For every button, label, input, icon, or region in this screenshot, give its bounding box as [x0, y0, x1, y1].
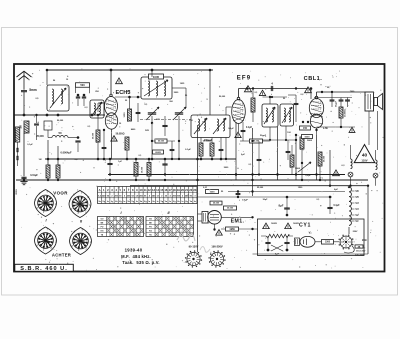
node x3	[103, 129, 105, 131]
node e1	[321, 91, 323, 93]
psu box	[258, 219, 365, 256]
IF transformer can A	[191, 115, 230, 138]
svg-text:A: A	[99, 188, 101, 192]
wire em1 out	[221, 216, 252, 218]
node x14	[295, 134, 297, 136]
wire ECH3 plate	[110, 70, 112, 94]
lamp socket 90-130	[187, 252, 200, 265]
wire c3 down	[36, 133, 38, 140]
svg-text:S.B.R. 460 U.: S.B.R. 460 U.	[20, 266, 68, 272]
svg-text:50μμF: 50μμF	[260, 135, 267, 137]
node h4	[329, 196, 331, 198]
junction bus	[276, 173, 278, 175]
capacitor C24	[170, 148, 175, 150]
svg-text:300Ω: 300Ω	[16, 189, 18, 195]
node x9	[220, 158, 223, 161]
capacitor C5 left	[16, 156, 18, 160]
svg-text:40: 40	[362, 153, 368, 159]
pilot coil L5	[375, 150, 377, 160]
test triangle T6	[111, 136, 117, 141]
wire input bus	[14, 114, 105, 116]
node x10	[225, 158, 227, 160]
svg-text:V₄: V₄	[309, 231, 312, 235]
junction bus2	[329, 185, 331, 187]
svg-text:50,000: 50,000	[219, 96, 226, 98]
fuse 4A	[355, 245, 363, 248]
resistor R12 hatched	[147, 163, 151, 177]
junction bus4	[301, 179, 303, 181]
trimmer arrow osc	[144, 80, 168, 96]
capacitor C12	[339, 99, 344, 101]
wire osc right	[172, 87, 186, 89]
capacitor C17	[241, 129, 246, 131]
node f6	[196, 158, 199, 161]
wire caps row	[314, 97, 352, 99]
capacitor C26	[294, 102, 299, 104]
junction bus	[135, 179, 137, 181]
node x5	[151, 158, 154, 161]
antenna coil L2 box	[90, 100, 104, 118]
resistor R13	[125, 137, 129, 150]
tube socket IV	[70, 228, 92, 255]
junction x22	[47, 179, 49, 181]
node g4	[251, 140, 253, 142]
svg-text:V5: V5	[355, 195, 359, 199]
grid lead ECH3	[98, 102, 106, 104]
node d2	[295, 87, 297, 89]
svg-text:EM1.: EM1.	[231, 218, 245, 224]
junction bus5	[319, 179, 321, 181]
wire can C down	[285, 126, 287, 140]
wire psu bottom	[253, 253, 343, 255]
resistor R18 1500	[206, 190, 219, 194]
node b3	[137, 96, 140, 99]
capacitor C21	[265, 241, 270, 243]
volume pot arrow	[298, 162, 311, 172]
svg-text:1035: 1035	[153, 75, 160, 79]
scan speckle	[18, 68, 383, 270]
model box SBR 460 U	[15, 264, 74, 271]
svg-text:110-130V: 110-130V	[356, 251, 366, 253]
wire cv down	[151, 116, 153, 159]
tube EF9	[232, 100, 246, 124]
node x15	[237, 196, 239, 198]
trimmer arrow L1	[50, 88, 66, 108]
node x11	[315, 129, 317, 131]
svg-text:M.F. 484 kHz.: M.F. 484 kHz.	[121, 254, 151, 259]
node x6	[178, 158, 180, 160]
node a4	[46, 114, 49, 117]
top cap ECH3	[110, 94, 112, 96]
svg-text:0,1μF: 0,1μF	[27, 144, 33, 146]
junction bus	[148, 179, 150, 181]
top cap CBL1	[315, 96, 318, 99]
capacitor C13	[345, 99, 350, 101]
vertical wire x277	[277, 127, 279, 180]
padder coil L3 50	[52, 136, 68, 138]
junction d6	[285, 139, 287, 141]
output transformer	[365, 92, 374, 111]
junction y70 osc	[209, 69, 212, 72]
resistor R25 hatched	[199, 143, 203, 156]
svg-text:13: 13	[152, 188, 155, 192]
tube socket III	[35, 227, 57, 254]
svg-text:50,000: 50,000	[158, 141, 165, 143]
mains triangle 40 110V	[354, 145, 375, 163]
capacitor C16	[286, 150, 291, 152]
resistor R8 osc	[155, 139, 167, 143]
svg-text:17: 17	[169, 188, 172, 192]
svg-text:0.1μF: 0.1μF	[333, 205, 340, 207]
tap V5	[351, 196, 354, 198]
svg-text:50: 50	[58, 131, 62, 135]
svg-text:30μF: 30μF	[263, 199, 269, 201]
capacitor C22	[284, 241, 289, 243]
resistor R10 20000	[339, 107, 343, 118]
svg-text:50,000Ω: 50,000Ω	[116, 134, 125, 136]
resistor R4 left edge	[15, 127, 20, 142]
node c3	[178, 140, 180, 142]
wire speaker down	[368, 111, 370, 145]
lamp socket 190-250	[210, 252, 223, 265]
vertical wire x296	[295, 135, 297, 180]
junction x29	[251, 228, 253, 230]
junction x26	[367, 185, 369, 187]
wire can B top	[269, 97, 271, 104]
pilot coil L4	[350, 145, 352, 159]
junction bus	[235, 173, 237, 175]
value labels texture	[27, 79, 358, 233]
vertical wire x236	[235, 122, 237, 180]
node x4	[171, 158, 173, 160]
node em1	[251, 216, 253, 218]
pot wiper X	[271, 245, 283, 251]
svg-text:220-250V: 220-250V	[355, 255, 365, 257]
capacitor C11	[330, 99, 335, 101]
wire em1 down	[214, 224, 216, 229]
svg-text:30,000: 30,000	[93, 132, 95, 139]
svg-text:VOOR: VOOR	[53, 191, 68, 196]
node b1	[110, 69, 113, 72]
wire bus y186	[130, 185, 368, 187]
svg-text:V4: V4	[355, 201, 359, 205]
node x2	[103, 158, 106, 161]
node a2	[83, 94, 86, 97]
wire bus y174	[108, 174, 345, 176]
svg-text:EF9: EF9	[237, 76, 252, 82]
svg-text:V3: V3	[355, 207, 359, 211]
node d3	[252, 87, 254, 89]
capacitor C25	[219, 148, 224, 150]
svg-text:200Ω: 200Ω	[155, 152, 161, 154]
capacitor C18	[236, 192, 241, 194]
page edge frame	[2, 28, 398, 296]
resistor R6 hatched	[56, 165, 60, 178]
resistor R11 hatched	[134, 163, 138, 177]
junction x27	[348, 186, 350, 188]
svg-text:1000: 1000	[124, 112, 126, 118]
wire can B down	[269, 127, 271, 140]
speaker LS	[374, 98, 378, 106]
junction y115 extra	[35, 114, 37, 116]
wire cy1 out	[315, 241, 321, 243]
node h1	[237, 190, 239, 192]
vertical wire x330	[329, 150, 331, 186]
svg-text:0.1μF: 0.1μF	[185, 149, 191, 151]
test triangle T5	[349, 127, 355, 132]
variable capacitor CV1	[148, 112, 156, 114]
junction x18	[235, 173, 237, 175]
node a9	[57, 158, 60, 161]
capacitor C15	[162, 163, 167, 165]
svg-text:20: 20	[181, 188, 184, 192]
svg-text:90Ω: 90Ω	[362, 239, 367, 242]
capacitor C1	[76, 96, 80, 98]
wire cv1 node	[151, 140, 153, 142]
resistor R22 1M	[226, 227, 239, 231]
resistor R3 box	[44, 121, 52, 130]
junction x21	[23, 179, 26, 182]
resistor R28 5000	[302, 135, 313, 139]
svg-text:12: 12	[148, 188, 151, 192]
svg-text:150: 150	[303, 127, 308, 130]
test triangle T2	[244, 86, 251, 92]
wire selector loop	[344, 246, 354, 253]
tube EM1	[202, 212, 208, 224]
test triangle T7	[333, 170, 340, 176]
node x7	[200, 158, 203, 161]
tap V3	[351, 208, 354, 210]
pilot lamp P2	[373, 173, 378, 178]
capacitor C8	[136, 111, 141, 113]
svg-text:V1: V1	[355, 219, 359, 223]
pencil mark 2	[200, 247, 210, 253]
svg-text:25,000: 25,000	[257, 187, 264, 189]
variable capacitor CV2	[175, 112, 183, 114]
svg-text:5000: 5000	[295, 168, 301, 170]
svg-text:1MΩ: 1MΩ	[229, 228, 234, 231]
svg-text:1939-40: 1939-40	[125, 248, 143, 253]
capacitor C20	[327, 206, 332, 208]
svg-text:500: 500	[80, 83, 85, 87]
ground antenna	[23, 177, 25, 182]
capacitor C23	[102, 146, 107, 148]
test triangle T9	[285, 223, 292, 229]
IF transformer can C	[280, 104, 294, 126]
node h3	[286, 214, 289, 217]
svg-text:90-130V: 90-130V	[189, 245, 199, 249]
wire em3 row	[253, 228, 258, 230]
voltage selector S1	[340, 236, 352, 248]
junction x24	[251, 179, 253, 181]
resistor R29 25000	[210, 201, 222, 205]
node d4	[269, 96, 271, 98]
resistor R20 hum pot	[266, 234, 289, 238]
wire ech3 cathode down	[111, 133, 113, 159]
wire x13	[288, 94, 296, 96]
resistor R19 30000	[224, 206, 237, 210]
svg-text:19: 19	[177, 188, 180, 192]
node h7	[286, 249, 289, 252]
IF transformer can B	[262, 104, 278, 127]
junction x28	[329, 196, 331, 198]
junction x19	[164, 173, 166, 175]
node f1	[135, 158, 138, 161]
wire osc to ifcan	[209, 70, 211, 115]
node a1	[77, 94, 80, 97]
svg-text:GO: GO	[149, 219, 152, 221]
node c1	[151, 69, 154, 72]
wire bus y180	[16, 179, 368, 181]
vertical wire x252	[252, 128, 254, 196]
top cap EF9	[237, 97, 240, 100]
junction x25	[196, 179, 198, 181]
wire antenna down	[23, 133, 25, 176]
svg-text:8μF: 8μF	[279, 204, 284, 208]
junction bus	[164, 179, 166, 181]
wire grid cbl1	[310, 89, 312, 100]
junction x17	[276, 173, 278, 175]
antenna coil L1 box	[47, 85, 69, 111]
svg-text:14: 14	[156, 188, 159, 192]
resistor R2 1M	[24, 121, 29, 133]
svg-text:0.5μF: 0.5μF	[242, 200, 248, 202]
svg-text:CBL1.: CBL1.	[304, 76, 323, 82]
node b2	[128, 96, 131, 99]
svg-text:0.01μF: 0.01μF	[30, 174, 38, 177]
capacitor C10 coupling	[270, 86, 272, 91]
tube CBL1	[309, 99, 323, 118]
svg-text:500Ω: 500Ω	[293, 223, 299, 225]
svg-text:0,5μF: 0,5μF	[305, 175, 311, 177]
wire can bottom row	[262, 139, 296, 141]
node a3	[23, 114, 26, 117]
wire winding to selector	[348, 227, 350, 234]
resistor R23 30000	[96, 130, 100, 142]
svg-text:10: 10	[140, 188, 143, 192]
antenna A1	[23, 71, 25, 90]
valve data table	[98, 187, 198, 204]
svg-text:1M: 1M	[39, 159, 42, 161]
node x1	[97, 158, 100, 161]
svg-text:ACHTER: ACHTER	[52, 253, 71, 258]
wire mid bus y159	[45, 158, 236, 160]
svg-text:22: 22	[189, 188, 192, 192]
node f2	[148, 158, 151, 161]
node g1	[302, 121, 304, 123]
schematic border frame	[14, 64, 385, 272]
transformer winding W1	[349, 187, 351, 225]
capacitor C27	[257, 158, 262, 160]
svg-text:10,000: 10,000	[142, 166, 144, 173]
junction bus	[295, 173, 297, 175]
svg-text:1500: 1500	[210, 191, 216, 193]
svg-text:5000: 5000	[305, 136, 311, 138]
svg-text:20,000Ω: 20,000Ω	[345, 109, 347, 117]
test triangle T10	[216, 230, 223, 236]
pencil mark fil	[177, 234, 195, 241]
gang dashed link	[140, 119, 196, 121]
svg-text:V6: V6	[355, 189, 359, 193]
vertical wire x316	[316, 135, 318, 180]
wire long vertical volume	[197, 125, 199, 252]
svg-text:23: 23	[193, 188, 196, 192]
svg-text:0,1μF: 0,1μF	[228, 128, 234, 130]
resistor R5 hatched	[46, 165, 50, 178]
wire CBL1 plate	[316, 92, 318, 96]
switch table II	[146, 217, 194, 237]
tap V6	[351, 190, 354, 192]
svg-text:V2: V2	[355, 213, 359, 217]
node h5	[251, 190, 253, 192]
resistor R15 5000	[300, 137, 304, 149]
oscillator coil box 1035	[141, 77, 172, 99]
wire e row127	[317, 126, 356, 128]
svg-text:110V: 110V	[361, 158, 367, 162]
junction y70 b	[46, 69, 49, 72]
node h2	[286, 196, 289, 199]
node e2	[331, 91, 333, 93]
test triangle T4	[305, 87, 312, 93]
svg-text:25,000: 25,000	[213, 203, 220, 205]
wire plate bus y88	[239, 88, 312, 90]
trimmer arrow L2	[92, 102, 103, 116]
tube ECH3	[105, 97, 118, 116]
wire right edge drop	[367, 186, 369, 254]
junction y70 c	[151, 69, 153, 71]
node f3	[109, 158, 112, 161]
capacitor C9 padder	[162, 124, 167, 126]
capacitor C6	[75, 140, 80, 142]
node g2	[307, 121, 309, 123]
node a5	[57, 114, 60, 117]
grid lead EF9	[226, 106, 232, 108]
svg-text:25,000: 25,000	[36, 135, 44, 138]
svg-text:1500: 1500	[325, 242, 331, 244]
wire psu y197	[198, 196, 333, 198]
wire screen row	[115, 96, 145, 98]
capacitor C3	[34, 123, 39, 125]
test triangle T11	[235, 132, 241, 137]
svg-text:50μμF: 50μμF	[336, 100, 338, 107]
junction d7	[269, 139, 271, 141]
resistor R17 25000	[250, 139, 263, 143]
capacitor C14	[107, 162, 112, 164]
switch table I	[98, 217, 144, 237]
node x8	[211, 158, 214, 161]
svg-text:0.1μF: 0.1μF	[246, 127, 253, 129]
resistor R9 screen	[251, 98, 255, 112]
junction x23	[57, 179, 59, 181]
node e3	[340, 126, 342, 128]
svg-text:5000: 5000	[307, 140, 313, 142]
junction x16	[258, 173, 260, 175]
svg-text:16: 16	[164, 188, 167, 192]
wire top bus B1	[47, 69, 213, 71]
resistor R16 30000	[318, 152, 322, 166]
pilot lamp P1	[348, 172, 353, 177]
svg-text:Taak. 535 Ω. p.V.: Taak. 535 Ω. p.V.	[122, 260, 159, 265]
junction mid right	[295, 139, 297, 141]
svg-text:50,000Ω: 50,000Ω	[203, 141, 212, 143]
wire to selector	[334, 241, 340, 243]
node a8	[47, 158, 50, 161]
node em2	[213, 228, 215, 230]
resistor R26 hatched	[210, 143, 214, 156]
node a6	[91, 114, 94, 117]
selector tap dots	[352, 244, 353, 245]
svg-text:0.0004μF: 0.0004μF	[60, 151, 72, 155]
